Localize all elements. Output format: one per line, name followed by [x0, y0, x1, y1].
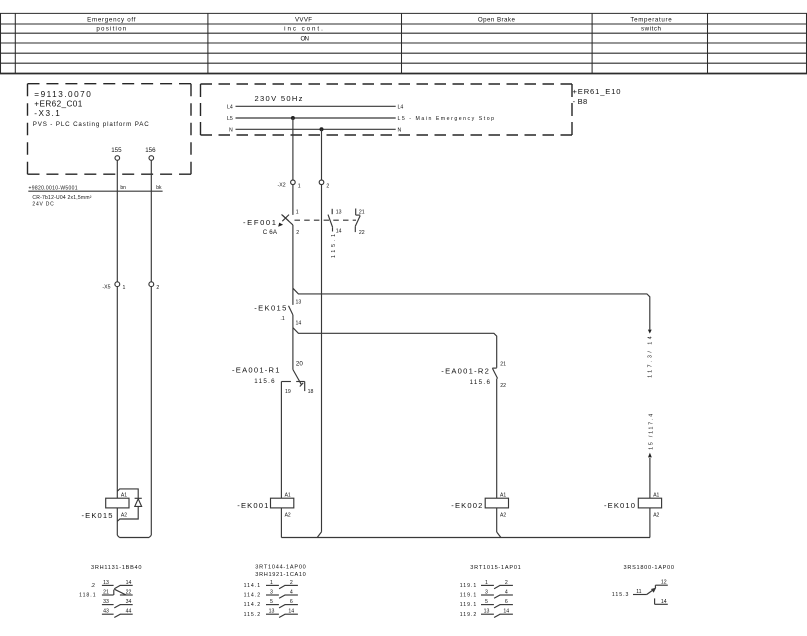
svg-text:18: 18 [308, 389, 314, 395]
svg-text:114.2: 114.2 [244, 602, 261, 608]
svg-text:230V 50Hz: 230V 50Hz [255, 94, 304, 103]
svg-text:115.2: 115.2 [244, 612, 261, 618]
svg-text:156: 156 [145, 147, 156, 154]
svg-text:3: 3 [485, 589, 488, 595]
svg-text:19: 19 [285, 389, 291, 395]
svg-text:22: 22 [500, 383, 506, 389]
svg-text:1: 1 [270, 580, 273, 586]
svg-text:bn: bn [120, 185, 126, 191]
svg-text:N: N [398, 128, 402, 134]
svg-text:A1: A1 [121, 492, 127, 498]
svg-text:A2: A2 [121, 513, 127, 519]
svg-text:position: position [96, 26, 126, 33]
svg-text:3RT1015-1AP01: 3RT1015-1AP01 [470, 565, 521, 571]
svg-text:13: 13 [269, 609, 275, 615]
svg-text:A1: A1 [653, 492, 659, 498]
svg-text:L4: L4 [398, 105, 404, 111]
svg-text:12: 12 [661, 580, 667, 586]
svg-text:-EA001-R1: -EA001-R1 [232, 366, 280, 375]
svg-text:114.2: 114.2 [244, 593, 261, 599]
svg-text:115.1: 115.1 [331, 234, 337, 258]
svg-text:22: 22 [126, 589, 132, 595]
svg-text:14: 14 [503, 609, 509, 615]
svg-text:- B8: - B8 [573, 97, 588, 106]
svg-text:2: 2 [156, 285, 159, 291]
svg-text:+ER61_E10: +ER61_E10 [573, 87, 621, 96]
svg-text:5: 5 [485, 599, 488, 605]
svg-text:-EK015: -EK015 [254, 303, 286, 312]
svg-text:21: 21 [359, 209, 365, 215]
svg-text:4: 4 [505, 589, 508, 595]
svg-text:4: 4 [290, 589, 293, 595]
svg-text:1: 1 [296, 209, 299, 215]
svg-text:bk: bk [156, 185, 162, 191]
svg-text:115.6: 115.6 [470, 379, 491, 386]
svg-text:-X2: -X2 [278, 183, 286, 189]
svg-text:13: 13 [484, 609, 490, 615]
svg-text:34: 34 [126, 599, 132, 605]
svg-text:119.1: 119.1 [460, 593, 477, 599]
svg-text:-EK015: -EK015 [82, 511, 113, 520]
svg-text:6: 6 [290, 599, 293, 605]
svg-text:115.3: 115.3 [612, 592, 629, 598]
svg-text:1: 1 [298, 183, 301, 189]
svg-text:22: 22 [359, 230, 365, 236]
svg-text:-X3.1: -X3.1 [34, 109, 60, 118]
svg-text:.2: .2 [91, 583, 95, 589]
svg-text:155: 155 [111, 147, 122, 154]
svg-text:13: 13 [336, 209, 342, 215]
svg-text:A1: A1 [285, 492, 291, 498]
svg-text:inc cont.: inc cont. [284, 26, 323, 33]
svg-text:6: 6 [505, 599, 508, 605]
svg-text:-EA001-R2: -EA001-R2 [441, 366, 489, 375]
svg-text:2: 2 [326, 184, 329, 190]
svg-text:C 6A: C 6A [263, 229, 278, 236]
svg-text:11: 11 [636, 589, 641, 595]
svg-text:1: 1 [123, 285, 126, 291]
svg-text:A2: A2 [500, 513, 506, 519]
svg-text:119.2: 119.2 [460, 612, 477, 618]
svg-text:A2: A2 [653, 513, 659, 519]
svg-text:PVS - PLC Casting platform PAC: PVS - PLC Casting platform PAC [33, 121, 150, 128]
svg-text:-EK002: -EK002 [451, 501, 482, 510]
svg-text:14: 14 [661, 599, 667, 605]
svg-text:1: 1 [485, 580, 488, 586]
svg-text:33: 33 [103, 599, 109, 605]
svg-text:14: 14 [288, 609, 294, 615]
svg-text:A1: A1 [500, 492, 506, 498]
svg-text:14: 14 [296, 320, 302, 326]
svg-text:L4: L4 [227, 105, 233, 111]
svg-text:=9113.0070: =9113.0070 [34, 90, 91, 99]
svg-text:ON: ON [300, 35, 309, 42]
svg-text:+ER62_C01: +ER62_C01 [34, 100, 82, 109]
svg-text:+9820.0010-W5001: +9820.0010-W5001 [29, 186, 78, 192]
svg-text:switch: switch [641, 26, 661, 33]
svg-text:2: 2 [505, 580, 508, 586]
svg-text:-EK001: -EK001 [237, 501, 268, 510]
svg-text:3RS1800-1AP00: 3RS1800-1AP00 [624, 565, 675, 571]
svg-text:44: 44 [126, 609, 132, 615]
svg-text:Open Brake: Open Brake [478, 17, 516, 24]
svg-text:3RH1131-1BB40: 3RH1131-1BB40 [91, 565, 142, 571]
svg-text:115.6: 115.6 [254, 378, 275, 385]
svg-text:20: 20 [296, 361, 303, 368]
svg-text:5: 5 [270, 599, 273, 605]
svg-text:2: 2 [296, 230, 299, 236]
svg-text:14: 14 [126, 580, 132, 586]
svg-text:119.1: 119.1 [460, 583, 477, 589]
svg-text:-EK010: -EK010 [604, 501, 635, 510]
svg-text:114.1: 114.1 [244, 583, 261, 589]
svg-text:43: 43 [103, 609, 109, 615]
svg-text:21: 21 [103, 589, 109, 595]
svg-text:3RH1921-1CA10: 3RH1921-1CA10 [255, 572, 305, 578]
svg-text:Emergency off: Emergency off [87, 17, 136, 24]
svg-text:24V DC: 24V DC [32, 201, 54, 207]
svg-text:14: 14 [336, 229, 342, 235]
svg-text:Temperature: Temperature [630, 17, 672, 24]
svg-text:N: N [229, 128, 233, 134]
svg-text:119.1: 119.1 [460, 602, 477, 608]
svg-text:VVVF: VVVF [295, 17, 312, 24]
svg-text:13: 13 [296, 299, 302, 305]
svg-text:13: 13 [103, 580, 109, 586]
svg-text:L5: L5 [227, 116, 233, 122]
svg-text:118.1: 118.1 [79, 593, 96, 599]
svg-text:3RT1044-1AP00: 3RT1044-1AP00 [255, 564, 305, 570]
svg-text:A2: A2 [285, 513, 291, 519]
svg-text:21: 21 [500, 361, 506, 367]
svg-text:CR-7b12-U04 2x1,5mm²: CR-7b12-U04 2x1,5mm² [32, 195, 91, 201]
svg-text:.1: .1 [280, 316, 284, 322]
svg-text:15 /117.4: 15 /117.4 [649, 414, 655, 450]
svg-text:2: 2 [290, 580, 293, 586]
svg-text:-EF001: -EF001 [243, 218, 276, 227]
svg-text:3: 3 [270, 589, 273, 595]
svg-text:-X5: -X5 [102, 285, 110, 291]
svg-text:L5 - Main Emergency Stop: L5 - Main Emergency Stop [398, 116, 495, 122]
svg-text:117.3/ 14: 117.3/ 14 [648, 336, 654, 378]
